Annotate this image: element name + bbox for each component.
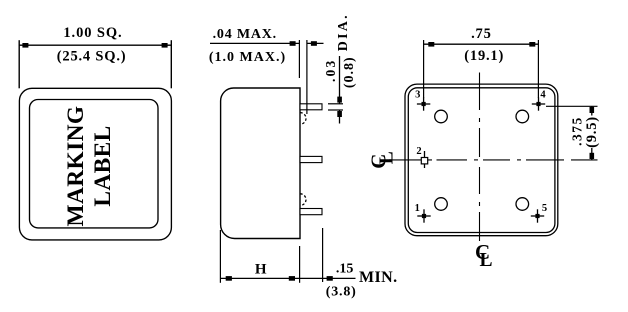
dimension .04 MAX: bump-tip extension line	[306, 40, 308, 114]
standoff bump circle (bottom-left)	[435, 198, 448, 211]
svg-text:DIA.: DIA.	[336, 13, 351, 51]
dimension .15 MIN: right line with left arrow	[323, 276, 356, 281]
dimension .03 DIA: pin-bottom extension line	[328, 109, 343, 111]
svg-text:L: L	[480, 250, 493, 271]
pin 2 number label	[416, 146, 421, 157]
svg-text:L: L	[377, 151, 398, 164]
dimension .15 MIN: body-edge extension line	[299, 246, 301, 283]
dimension .03 DIA: upper leader with down arrow	[337, 56, 342, 104]
dimension 1.00 SQ.: left arrowhead	[22, 43, 28, 48]
dimension H: dimension line	[220, 277, 299, 279]
dimension H: left extension line	[219, 230, 221, 283]
svg-text:5: 5	[542, 203, 547, 214]
dimension .04 MAX: right arrow and tail	[307, 41, 324, 46]
svg-text:MARKING: MARKING	[63, 105, 89, 226]
pin 1 target cross	[417, 209, 430, 222]
dimension text (9.5) (rotated)	[584, 116, 600, 148]
top view: MARKING LABEL text (rotated)	[63, 105, 116, 226]
dimension .75: left extension line	[423, 40, 425, 98]
dimension .15 MIN: gap segment	[300, 277, 323, 279]
svg-text:.03: .03	[323, 59, 338, 82]
dimension .03 DIA: pin-top extension line	[328, 103, 343, 105]
top view: outer case outline	[19, 88, 171, 240]
dimension .375: upper dimension segment with up arrow	[590, 106, 595, 115]
dimension 1.00 SQ.: right extension line	[170, 40, 172, 88]
dimension text .15	[336, 261, 354, 276]
dimension text MIN.	[359, 269, 397, 286]
dimension H: right arrowhead	[289, 276, 295, 281]
pin 5 number label	[542, 203, 547, 214]
svg-text:LABEL: LABEL	[90, 125, 116, 206]
dimension 1.00 SQ.: dimension line	[19, 44, 171, 46]
horizontal centerline (dash-dot)	[389, 159, 598, 161]
dimension .75: right extension line	[537, 40, 539, 98]
side view: pin 3 (bottom lead)	[300, 209, 322, 215]
dimension 1.00 SQ.: right arrowhead	[162, 43, 168, 48]
dimension H: left arrowhead	[226, 276, 232, 281]
dimension text 1.00 SQ.	[63, 25, 122, 41]
svg-text:.75: .75	[471, 26, 492, 42]
standoff bump circle (top-right)	[516, 110, 529, 123]
dimension .03 DIA: label (0.8) (rotated)	[342, 56, 357, 88]
svg-text:4: 4	[540, 90, 546, 101]
svg-text:.15: .15	[336, 261, 354, 276]
dimension text (25.4 SQ.)	[57, 49, 127, 65]
dimension text H	[255, 261, 267, 277]
svg-text:.375: .375	[569, 116, 584, 146]
svg-text:1: 1	[415, 203, 420, 214]
dimension .75: right arrowhead	[529, 42, 535, 47]
vertical centerline (dash-dot)	[479, 73, 481, 242]
side view: case body outline	[221, 88, 300, 239]
top view: marking label border (inner rounded square)	[30, 100, 159, 228]
svg-text:1.00 SQ.: 1.00 SQ.	[63, 25, 122, 41]
pin 4 target cross	[532, 97, 545, 110]
dimension text .375 (rotated)	[569, 116, 584, 146]
pin 1 number label	[415, 203, 420, 214]
dimension .03 DIA: lower leader with up arrow	[337, 110, 342, 123]
svg-text:(3.8): (3.8)	[326, 285, 357, 300]
pin 5 target cross	[531, 209, 544, 222]
svg-text:H: H	[255, 261, 267, 277]
svg-text:3: 3	[415, 90, 420, 101]
side view: hidden standoff bump (upper, dashed)	[300, 113, 306, 125]
svg-text:.04 MAX.: .04 MAX.	[213, 27, 277, 42]
svg-text:MIN.: MIN.	[359, 269, 397, 286]
dimension .375: pin-row extension line	[546, 105, 598, 107]
dimension .04 MAX: dimension line with left arrow	[210, 41, 299, 46]
svg-text:(1.0 MAX.): (1.0 MAX.)	[209, 50, 286, 65]
pin 3 number label	[415, 90, 420, 101]
dimension .75: dimension line	[424, 43, 539, 45]
standoff bump circle (top-left)	[435, 110, 448, 123]
dimension .03 DIA: label .03 (rotated)	[323, 59, 338, 82]
dimension .03 DIA: label DIA. (rotated)	[336, 13, 351, 51]
bottom view: outer case outline	[405, 84, 558, 236]
pin 2 target cross (open square)	[421, 151, 427, 168]
svg-text:(19.1): (19.1)	[464, 48, 504, 64]
dimension text (3.8)	[326, 285, 357, 300]
dimension text (19.1)	[464, 48, 504, 64]
side view: pin 2 (middle lead)	[300, 156, 322, 162]
centerline symbol (bottom)	[475, 240, 493, 271]
bottom view: inner case outline	[408, 88, 555, 233]
centerline symbol (left, rotated)	[367, 151, 398, 169]
svg-text:(25.4 SQ.): (25.4 SQ.)	[57, 49, 127, 65]
dimension .04 MAX: body-edge extension line	[298, 40, 300, 78]
dimension .15 MIN: pin-tip extension line	[322, 228, 324, 282]
dimension 1.00 SQ.: left extension line	[18, 40, 20, 88]
svg-text:(9.5): (9.5)	[584, 116, 600, 148]
svg-text:2: 2	[416, 146, 421, 157]
standoff bump circle (bottom-right)	[516, 198, 529, 211]
dimension .75: left arrowhead	[428, 42, 434, 47]
dimension .375: lower dimension segment with down arrow	[590, 148, 595, 160]
dimension text (1.0 MAX.)	[209, 50, 286, 65]
pin 4 number label	[540, 90, 546, 101]
dimension text .75	[471, 26, 492, 42]
side view: pin 1 (top lead)	[300, 104, 322, 110]
dimension text .04 MAX.	[213, 27, 277, 42]
svg-text:(0.8): (0.8)	[342, 56, 357, 88]
pin 3 target cross	[417, 97, 430, 110]
side view: hidden standoff bump (lower, dashed)	[300, 194, 306, 206]
